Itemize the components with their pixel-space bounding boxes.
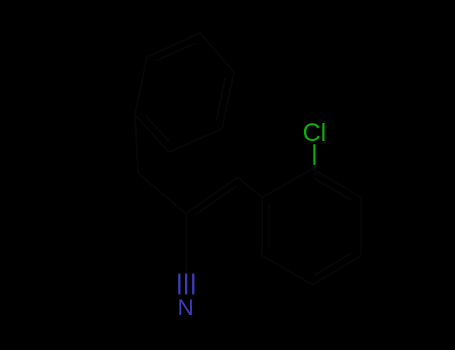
left ring inner aromatic line E-F — [146, 116, 169, 141]
right ring inner aromatic line LL-UL — [268, 205, 270, 247]
bond ring to CH2 — [135, 115, 138, 173]
double bond C=C main line — [186, 177, 238, 213]
benzene ring left outline — [135, 33, 234, 152]
nitrile triple bond line 1 blue — [178, 275, 180, 294]
left ring inner aromatic line A-B — [157, 43, 195, 60]
double bond C=C inner line — [195, 187, 236, 215]
right ring inner aromatic line T-UR — [316, 179, 351, 199]
left ring inner aromatic line C-D — [217, 78, 226, 119]
benzene ring right outline — [262, 169, 361, 285]
C-Cl bond green — [313, 145, 315, 164]
svg-text:N: N — [177, 295, 193, 320]
nitrile triple bond line 2 blue — [185, 275, 187, 294]
bond CH to right ring ipso — [238, 177, 262, 197]
bond CH2 to vinyl C — [138, 173, 186, 214]
bond vinyl C to nitrile C — [185, 214, 187, 275]
nitrile triple bond line 3 blue — [192, 275, 194, 294]
right ring inner aromatic line LR-B — [316, 254, 351, 275]
C-Cl bond carbon-side stub — [313, 163, 315, 170]
svg-text:Cl: Cl — [303, 119, 327, 147]
